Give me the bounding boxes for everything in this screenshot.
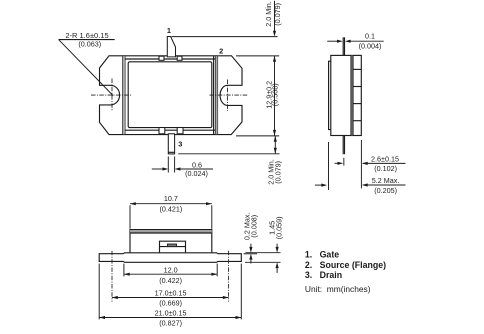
svg-text:17.0±0.15: 17.0±0.15: [155, 289, 187, 298]
svg-text:(0.102): (0.102): [374, 164, 397, 173]
svg-text:(0.669): (0.669): [159, 299, 182, 308]
svg-text:1: 1: [167, 26, 171, 35]
svg-text:Source (Flange): Source (Flange): [320, 260, 387, 270]
svg-text:Gate: Gate: [320, 250, 340, 260]
svg-text:(0.079): (0.079): [274, 161, 283, 184]
svg-text:Drain: Drain: [320, 270, 343, 280]
svg-text:2.: 2.: [305, 260, 312, 270]
svg-text:(0.063): (0.063): [78, 39, 101, 48]
svg-text:(0.827): (0.827): [159, 319, 182, 328]
svg-text:2: 2: [219, 46, 223, 55]
svg-text:Unit: mm(inches): Unit: mm(inches): [305, 284, 371, 294]
svg-text:(0.079): (0.079): [273, 3, 282, 26]
svg-text:1.: 1.: [305, 250, 312, 260]
svg-text:(0.059): (0.059): [275, 217, 284, 240]
svg-text:2.0 Min.: 2.0 Min.: [264, 1, 273, 27]
svg-text:12.0: 12.0: [164, 265, 178, 274]
svg-text:2.6±0.15: 2.6±0.15: [371, 154, 399, 163]
svg-text:(0.024): (0.024): [185, 169, 208, 178]
svg-text:(0.421): (0.421): [160, 204, 183, 213]
svg-text:(0.422): (0.422): [159, 276, 182, 285]
svg-text:3.: 3.: [305, 270, 312, 280]
svg-text:(0.205): (0.205): [374, 186, 397, 195]
svg-text:10.7: 10.7: [164, 194, 178, 203]
svg-text:3: 3: [178, 140, 182, 149]
svg-text:(0.004): (0.004): [359, 42, 382, 51]
svg-text:(0.508): (0.508): [271, 83, 280, 106]
svg-text:0.6: 0.6: [192, 160, 202, 169]
svg-text:0.1: 0.1: [365, 32, 375, 41]
svg-text:5.2 Max.: 5.2 Max.: [372, 176, 400, 185]
svg-text:(0.008): (0.008): [249, 215, 258, 238]
svg-text:21.0±0.15: 21.0±0.15: [155, 309, 187, 318]
